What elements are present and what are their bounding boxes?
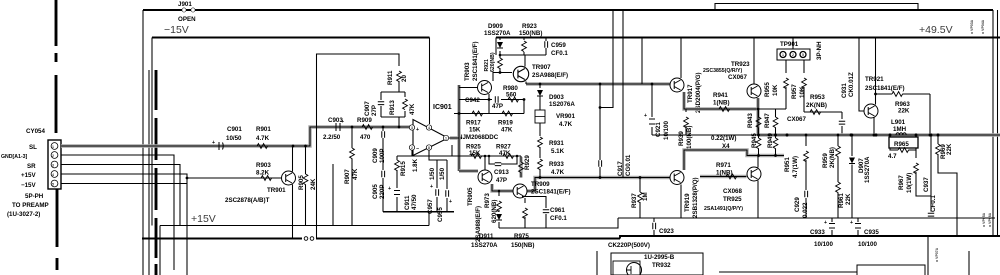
- svg-text:2: 2: [411, 146, 413, 150]
- svg-text:620(NB): 620(NB): [490, 52, 496, 72]
- wire: ground link y=228: [499, 218, 618, 228]
- terminal cups at bottom rail gap: [304, 237, 308, 241]
- svg-text:2SC2878(A/B)T: 2SC2878(A/B)T: [225, 197, 270, 204]
- wire: +15V rail left corner down x=160: [159, 226, 161, 275]
- inductor L901 on output rail: [889, 133, 918, 137]
- resistor R945 vertical (0.22) below rail: [758, 135, 760, 138]
- svg-text:10K: 10K: [799, 86, 806, 98]
- svg-text:GND[A1-3]: GND[A1-3]: [1, 154, 27, 160]
- svg-text:R957: R957: [791, 84, 798, 99]
- wire: -15V pin5 to x=187 down: [61, 183, 187, 185]
- svg-text:4.7(1W): 4.7(1W): [792, 156, 799, 178]
- svg-text:R905: R905: [298, 175, 305, 190]
- capacitor C957 column: [436, 160, 438, 212]
- zobel R951 C929 column: [805, 135, 807, 218]
- resistor R955 vertical: [785, 72, 787, 109]
- label C921 10/100 vertical: [655, 121, 670, 140]
- svg-text:1MH: 1MH: [893, 126, 907, 133]
- wire: top jumper loop x=715-918: [715, 4, 918, 11]
- svg-text:4: 4: [52, 173, 54, 177]
- label R937 1M vertical: [631, 192, 649, 208]
- wire: top rail y=10 from J901 corner to right edge: [143, 9, 993, 11]
- svg-text:CK220P(500V): CK220P(500V): [608, 242, 650, 249]
- transistor TR917: [670, 78, 684, 92]
- wire: TR925 collector down: [757, 181, 759, 219]
- svg-text:R961: R961: [838, 193, 845, 208]
- diode D911: [496, 214, 502, 220]
- label R915 1.8K vertical: [400, 158, 419, 176]
- wire: TR921 base from x=859: [859, 38, 864, 112]
- svg-text:1: 1: [52, 145, 54, 149]
- resistor R937 vertical: [639, 178, 641, 219]
- vertical supply line x=623: [622, 10, 624, 178]
- box bottom right: [857, 265, 925, 275]
- wire: TR921 collector row with R963 to x=930: [876, 94, 931, 135]
- svg-text:L901: L901: [891, 119, 906, 126]
- label R921 620(NB) vertical: [484, 52, 496, 72]
- junction at output: [459, 137, 462, 140]
- svg-text:R975: R975: [514, 233, 529, 240]
- label C931 CK0.01Z vertical: [841, 72, 855, 98]
- gray bus: TR925 base drive: [700, 175, 747, 178]
- svg-text:22K: 22K: [845, 193, 852, 205]
- svg-text:R919: R919: [498, 120, 513, 127]
- junction dots on bus at feedback taps: [382, 126, 385, 129]
- svg-text:R911: R911: [387, 70, 394, 85]
- svg-text:47K: 47K: [409, 103, 416, 115]
- gray bus: TR919 collector up and right to lower emitter resistors: [684, 150, 784, 170]
- label C909 100P vertical: [372, 148, 386, 163]
- op-amp IC901 triangle: [413, 120, 448, 156]
- svg-text:C903: C903: [328, 117, 343, 124]
- svg-text:R973: R973: [484, 193, 491, 208]
- resistor R933 vertical: [539, 147, 541, 158]
- svg-text:o VP03A: o VP03A: [970, 19, 974, 34]
- svg-text:o VP06A: o VP06A: [988, 212, 992, 227]
- svg-text:220P: 220P: [379, 185, 386, 199]
- capacitor C961: [522, 197, 546, 229]
- resistor R947 vertical (0.22) above rail: [775, 109, 777, 117]
- svg-text:CK0.01Z: CK0.01Z: [848, 72, 855, 97]
- svg-text:620(NB): 620(NB): [491, 200, 498, 223]
- svg-text:C907: C907: [364, 101, 371, 116]
- svg-text:8.2K: 8.2K: [256, 170, 270, 177]
- resistor R923 vertical: [523, 38, 525, 56]
- wire: +15V rail y=225.5: [160, 212, 429, 226]
- svg-text:47/50: 47/50: [411, 194, 418, 210]
- wire: TR923 collector to -15V rail: [753, 38, 755, 85]
- wire: R911 to parallel bracket: [398, 81, 400, 92]
- wire: y=109 link TR923 emitter to R955: [758, 108, 786, 110]
- svg-text:15K: 15K: [469, 127, 481, 134]
- label C917 CG0.01 vertical: [617, 154, 632, 176]
- connector CY054: [48, 140, 61, 189]
- svg-text:R967: R967: [898, 175, 905, 190]
- svg-text:R943: R943: [747, 113, 754, 128]
- connector tiny labels right edge top: [970, 19, 985, 34]
- svg-text:−15V: −15V: [21, 182, 36, 189]
- op-amp output pin 1: [443, 135, 448, 140]
- resistor R909 on bus: [362, 125, 373, 130]
- svg-text:C923: C923: [659, 228, 674, 235]
- svg-text:−: −: [416, 146, 419, 152]
- label C911 47/50 vertical: [404, 194, 418, 210]
- svg-text:R907: R907: [344, 169, 351, 184]
- junction on bus at D903: [539, 83, 542, 86]
- svg-text:1(NB): 1(NB): [716, 170, 733, 177]
- wire: TR917 collector to -15V rail: [680, 38, 682, 79]
- junction C921 tap on bus: [651, 83, 654, 86]
- svg-text:R965: R965: [894, 141, 909, 148]
- svg-text:R917: R917: [466, 120, 481, 127]
- op-amp pin 2: [409, 145, 419, 152]
- svg-text:1: 1: [782, 53, 784, 57]
- svg-text:R939: R939: [678, 131, 685, 146]
- gray bus: op-amp output up to TR907 row and down to TR905 row: [450, 84, 670, 171]
- svg-text:TR932: TR932: [652, 262, 671, 269]
- label C905 220P vertical: [372, 184, 386, 199]
- capacitor C935 electrolytic column: [857, 218, 859, 236]
- junction at TR901 collector on bus: [292, 145, 295, 148]
- svg-text:C937: C937: [923, 177, 930, 192]
- resistor R927: [503, 154, 514, 159]
- resistor R971 on base drive: [726, 174, 737, 179]
- svg-text:C942: C942: [465, 97, 480, 104]
- svg-text:(1U-3027-2): (1U-3027-2): [7, 211, 40, 218]
- capacitor C903 nonpolar on bus: [336, 119, 344, 131]
- resistor R959 column: [837, 135, 839, 182]
- svg-text:4: 4: [428, 126, 430, 130]
- label R959 2K(NB) vertical: [822, 147, 836, 168]
- wire: TR925 emitter up to y=155.5: [757, 156, 759, 168]
- transistor TR901: [282, 171, 296, 185]
- gray bus: TR923 emitter down to output rail: [756, 98, 759, 135]
- svg-text:C955: C955: [437, 207, 444, 222]
- wire: TR905 top to feedback node: [484, 156, 486, 171]
- svg-text:4.7K: 4.7K: [551, 169, 565, 176]
- svg-text:4.7: 4.7: [888, 153, 897, 160]
- svg-text:22K: 22K: [898, 108, 910, 115]
- resistor R929 vertical drop to drive line: [519, 156, 524, 178]
- svg-text:0.22(1W): 0.22(1W): [711, 135, 736, 142]
- svg-text:C911: C911: [404, 195, 411, 210]
- wire: lower mid rail y=218: [618, 217, 995, 219]
- svg-text:TO PREAMP: TO PREAMP: [12, 202, 49, 209]
- svg-text:2K(NB): 2K(NB): [806, 102, 827, 109]
- svg-text:CG0.01: CG0.01: [625, 154, 632, 176]
- op-amp pin 4: [426, 125, 431, 130]
- diode D903: [539, 84, 541, 88]
- svg-text:2SA988(E/F): 2SA988(E/F): [532, 72, 568, 79]
- svg-text:1: 1: [445, 137, 447, 141]
- label R973 620(NB) vertical: [484, 193, 498, 223]
- svg-text:2SC1841(E/F): 2SC1841(E/F): [531, 189, 571, 196]
- svg-text:+: +: [430, 184, 433, 190]
- svg-text:C933: C933: [810, 229, 825, 236]
- vertical line x=642: [641, 38, 643, 85]
- svg-text:150(NB): 150(NB): [511, 242, 534, 249]
- svg-text:+: +: [416, 127, 419, 133]
- label C955 1/50 vertical: [437, 167, 446, 222]
- svg-text:C913: C913: [494, 169, 509, 176]
- svg-text:CX068: CX068: [723, 188, 742, 195]
- svg-text:TP901: TP901: [780, 41, 799, 48]
- resistor R915 and capacitor C911 column: [396, 156, 398, 212]
- capacitor C921 electrolytic column: [651, 84, 653, 135]
- label C957 1/50 vertical: [427, 167, 436, 214]
- transistor TR903: [478, 81, 492, 95]
- svg-text:1/50: 1/50: [439, 167, 446, 180]
- diode D909 column from -15V rail: [499, 38, 501, 59]
- vertical line x=969 bottom: [968, 251, 970, 275]
- svg-text:C961: C961: [550, 207, 565, 214]
- label R913 47K vertical: [389, 100, 416, 115]
- svg-text:X4: X4: [722, 143, 730, 150]
- wire: y=55 link: [500, 54, 546, 56]
- label C937 CF0.1 vertical: [923, 177, 937, 212]
- svg-text:47K: 47K: [501, 127, 513, 134]
- svg-text:22K: 22K: [946, 143, 953, 155]
- resistor R943 vertical (0.22) above rail: [758, 109, 760, 117]
- svg-text:1SS270A: 1SS270A: [484, 30, 511, 37]
- svg-text:TR909: TR909: [531, 181, 550, 188]
- svg-text:10/100: 10/100: [814, 241, 833, 248]
- wire: rail drop to D909 row: [495, 38, 497, 56]
- wire: TR903 emitter down to C942 node: [488, 94, 490, 100]
- svg-text:SR: SR: [27, 163, 36, 170]
- svg-text:10K: 10K: [772, 84, 779, 96]
- svg-text:+: +: [449, 199, 452, 205]
- capacitor C913 parallel bracket: [489, 156, 517, 164]
- wire: pin4 supply feed down: [429, 38, 431, 125]
- svg-text:27P: 27P: [371, 105, 378, 116]
- capacitor C923 column: [653, 218, 655, 236]
- op-amp pin 8: [426, 145, 431, 150]
- label R905 24K vertical: [298, 175, 317, 190]
- wire: TR903 collector up to R921 column: [493, 68, 512, 81]
- parallel bracket C907 / R913: [381, 92, 405, 117]
- svg-text:TR921: TR921: [865, 76, 884, 83]
- svg-text:R955: R955: [764, 82, 771, 97]
- wire: R917 R919 row y=113: [454, 113, 524, 115]
- svg-text:TR905: TR905: [467, 187, 474, 206]
- svg-text:R951: R951: [784, 157, 791, 172]
- svg-text:CF0.1: CF0.1: [550, 215, 567, 222]
- svg-text:2SD2004(P/G): 2SD2004(P/G): [695, 72, 702, 113]
- svg-text:47P: 47P: [492, 103, 503, 110]
- svg-text:1SS270A: 1SS270A: [864, 156, 871, 183]
- svg-text:8: 8: [428, 146, 430, 150]
- wire: TR901 emitter down: [292, 185, 294, 239]
- svg-text:+15V: +15V: [21, 172, 36, 179]
- label R907 47K vertical: [344, 168, 359, 184]
- svg-text:OPEN: OPEN: [178, 16, 196, 23]
- svg-text:+: +: [212, 140, 215, 146]
- svg-text:R971: R971: [716, 162, 731, 169]
- svg-text:R915: R915: [400, 161, 407, 176]
- output rail gray y=135: [758, 133, 1000, 136]
- svg-text:NJM2068DDC: NJM2068DDC: [458, 134, 499, 141]
- label R951 4.7(1W) vertical: [784, 156, 799, 178]
- wire: TR919 emitter down: [680, 185, 682, 219]
- label R961 22K vertical: [838, 193, 852, 208]
- resistor R921 vertical: [498, 58, 503, 69]
- svg-text:R903: R903: [256, 162, 271, 169]
- svg-text:+: +: [824, 220, 827, 226]
- label D907 1SS270A vertical: [858, 156, 871, 183]
- svg-text:3: 3: [411, 126, 413, 130]
- transistor TR907: [513, 66, 528, 81]
- vertical supply line x=613: [600, 10, 613, 108]
- svg-text:15K: 15K: [469, 150, 481, 157]
- transistor TR921: [864, 104, 878, 118]
- vertical line x=928 bottom: [927, 236, 929, 275]
- resistor R941 on bus: [719, 107, 730, 112]
- svg-text:J901: J901: [178, 1, 192, 8]
- svg-text:C905: C905: [372, 184, 379, 199]
- svg-text:470: 470: [360, 134, 371, 141]
- label R939 100(NB) vertical: [678, 126, 693, 149]
- resistor R901 on bus: [257, 144, 268, 149]
- svg-text:1SS270A: 1SS270A: [471, 242, 498, 249]
- svg-text:C909: C909: [372, 148, 379, 163]
- resistor R957 vertical: [803, 72, 805, 112]
- svg-text:CF0.1: CF0.1: [551, 50, 568, 57]
- wire: SR pin3 down at x=180: [61, 165, 180, 226]
- svg-text:10/100: 10/100: [858, 241, 877, 248]
- svg-text:5P-PH: 5P-PH: [25, 193, 44, 200]
- resistor R965 in box parallel with L901: [889, 135, 918, 152]
- resistor R967 column: [916, 150, 931, 196]
- capacitor C917 column: [599, 84, 601, 178]
- svg-text:R901: R901: [256, 126, 271, 133]
- svg-text:CY054: CY054: [26, 128, 45, 135]
- svg-text:C959: C959: [551, 42, 566, 49]
- resistor R961 vertical: [836, 182, 841, 193]
- wire: feedback row y=156: [452, 145, 521, 156]
- jumper J901 terminals on top rail: [182, 8, 195, 12]
- svg-text:R931: R931: [549, 140, 564, 147]
- gray bus: lower drive to TR905/TR909 and to TR919: [459, 171, 670, 191]
- resistor R919: [502, 111, 513, 116]
- resistor R925: [471, 154, 482, 159]
- label R969 22K vertical: [940, 143, 953, 159]
- wire: right edge vertical x=997.5: [997, 10, 999, 236]
- svg-text:560: 560: [506, 92, 517, 99]
- svg-text:C935: C935: [864, 229, 879, 236]
- svg-text:24K: 24K: [310, 178, 317, 190]
- svg-text:D909: D909: [488, 23, 503, 30]
- capacitor C933 electrolytic column: [831, 218, 833, 236]
- label C929 0.022 vertical: [794, 197, 809, 218]
- wire: TR901 collector to bus: [292, 146, 294, 172]
- board edge dashed vertical x=156: [155, 70, 158, 275]
- label R911 20 vertical: [387, 70, 408, 85]
- signal bus gray: SL pin to op-amp input: [61, 127, 412, 146]
- svg-text:R947: R947: [764, 113, 771, 128]
- capacitor C955 column: [446, 160, 448, 212]
- svg-text:C931: C931: [841, 83, 848, 98]
- svg-text:R933: R933: [549, 161, 564, 168]
- transistor TR909: [513, 184, 527, 198]
- svg-text:+15V: +15V: [191, 213, 216, 225]
- svg-text:2K(NB): 2K(NB): [829, 147, 836, 168]
- wire: R903 base feed y=175.5: [187, 177, 281, 179]
- svg-text:C929: C929: [794, 197, 801, 212]
- svg-text:TR901: TR901: [267, 187, 286, 194]
- wire: +49.5V rail y=37.5 right segment: [496, 37, 1000, 39]
- board edge dashed vertical x=57 lower: [56, 189, 59, 270]
- capacitor C911 electrolytic: [388, 186, 400, 195]
- label TR903 2SC1841(E/F) vertical: [464, 41, 479, 81]
- svg-text:100P: 100P: [379, 149, 386, 163]
- wire: vertical x=149: [148, 70, 150, 275]
- svg-text:150(NB): 150(NB): [519, 30, 542, 37]
- svg-text:SL: SL: [29, 144, 37, 151]
- wire: left vertical of top rail box x=143: [142, 10, 144, 275]
- svg-text:o VP07A: o VP07A: [935, 247, 939, 262]
- svg-text:TR925: TR925: [723, 196, 742, 203]
- resistor R973 vertical column with D911: [498, 191, 500, 228]
- potentiometer VR901: [539, 96, 541, 110]
- svg-text:2SA1491(Q/P/Y): 2SA1491(Q/P/Y): [704, 206, 743, 212]
- svg-text:o VP04A: o VP04A: [981, 19, 985, 34]
- svg-text:2: 2: [792, 53, 794, 57]
- wire: left vertical x=152 of -15V rail: [151, 38, 153, 226]
- svg-text:TR907: TR907: [532, 64, 551, 71]
- wire: R933 to drive line: [539, 169, 541, 178]
- svg-text:47P: 47P: [496, 177, 507, 184]
- resistor R917: [472, 111, 483, 116]
- svg-text:R945: R945: [751, 133, 758, 148]
- svg-text:CF0.1: CF0.1: [930, 195, 937, 212]
- svg-text:−15V: −15V: [164, 24, 189, 36]
- svg-text:1.8K: 1.8K: [412, 158, 419, 172]
- label R955 10K vertical: [764, 82, 779, 97]
- wire: +15V pin4 to x=180 down: [61, 174, 187, 275]
- label R967 10(1W) vertical: [898, 173, 913, 193]
- svg-text:5: 5: [52, 183, 54, 187]
- capacitor C942 row: [459, 100, 524, 114]
- transistor TR919: [670, 171, 684, 185]
- label TR917 2SD2004(P/G) vertical: [687, 72, 702, 113]
- connector tiny labels right edge lower: [982, 212, 992, 227]
- svg-text:1M: 1M: [642, 192, 649, 201]
- svg-text:3P-NH: 3P-NH: [816, 41, 823, 60]
- svg-text:3: 3: [52, 164, 54, 168]
- resistor R975 vertical: [524, 198, 526, 228]
- capacitor C909 column: [382, 127, 384, 212]
- op-amp pin 3: [409, 125, 419, 133]
- svg-text:10/50: 10/50: [226, 135, 242, 142]
- svg-text:R941: R941: [713, 92, 728, 99]
- resistor R963: [892, 92, 903, 97]
- svg-text:1(NB): 1(NB): [713, 100, 730, 107]
- svg-text:2SC1841(E/F): 2SC1841(E/F): [472, 41, 479, 81]
- svg-text:2SB1328(P/Q): 2SB1328(P/Q): [692, 177, 699, 218]
- resistor R905 vertical: [305, 146, 307, 226]
- svg-text:TR923: TR923: [731, 61, 750, 68]
- svg-text:R953: R953: [810, 94, 825, 101]
- wire: R953 row y=112: [804, 111, 842, 113]
- svg-text:+: +: [644, 113, 647, 119]
- wire: pin2 down to feedback row: [397, 150, 452, 156]
- wire: TP901 leads down: [786, 38, 804, 73]
- capacitor C901 electrolytic on bus: [212, 140, 223, 150]
- svg-text:IC901: IC901: [433, 104, 452, 111]
- resistor R980 on row: [508, 97, 519, 102]
- resistor R969 column: [938, 135, 957, 236]
